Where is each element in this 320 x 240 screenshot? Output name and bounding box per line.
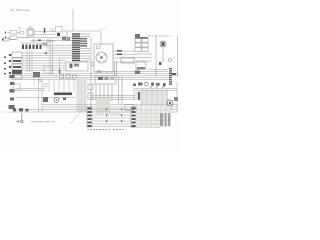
svg-text:7: 7 [173,56,175,60]
svg-text:Fig. Schematic: Fig. Schematic [10,8,30,12]
